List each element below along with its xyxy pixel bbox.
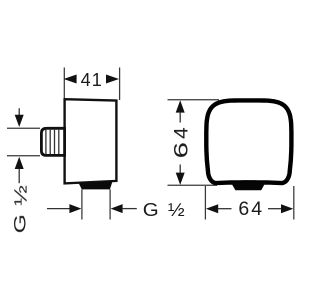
svg-text:½: ½ <box>168 199 185 220</box>
svg-text:41: 41 <box>81 70 103 90</box>
svg-text:G: G <box>11 214 29 233</box>
svg-text:64: 64 <box>238 198 264 220</box>
svg-text:6: 6 <box>171 142 192 158</box>
svg-text:4: 4 <box>171 127 192 139</box>
svg-text:½: ½ <box>10 185 31 206</box>
svg-text:G: G <box>143 199 159 220</box>
